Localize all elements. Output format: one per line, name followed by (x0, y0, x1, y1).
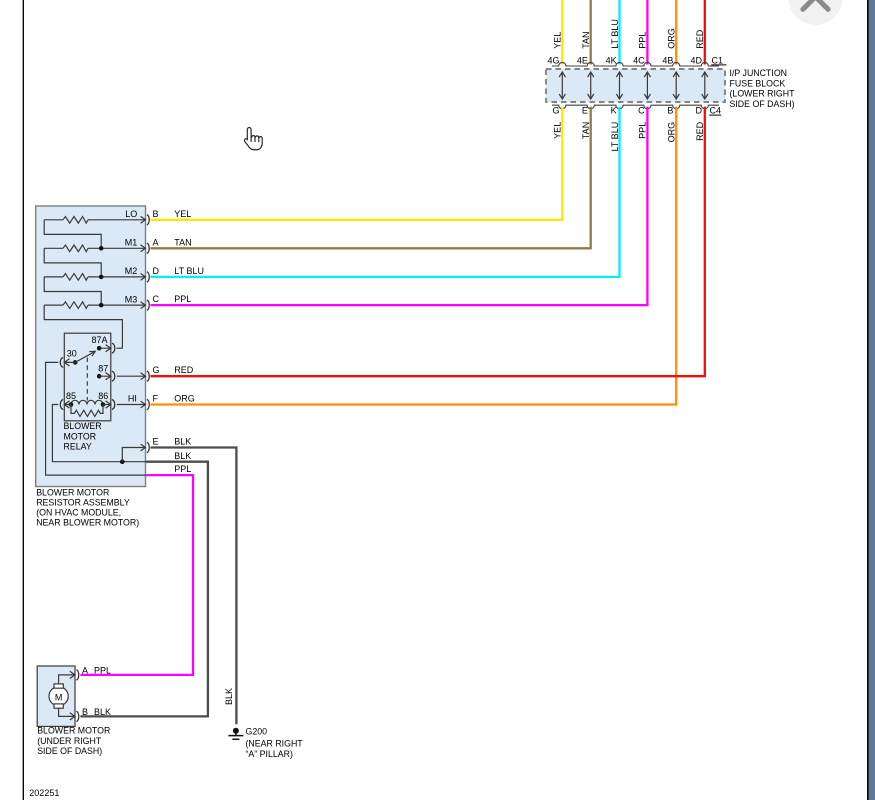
close button circle (789, 0, 843, 25)
wire RED from fuse block D to resistor pin G (151, 107, 705, 377)
wire loop M2 to M3 (44, 277, 101, 305)
svg-text:LT BLU: LT BLU (610, 122, 620, 152)
wire loop M1 to M2 (44, 248, 101, 277)
svg-text:PPL: PPL (638, 122, 648, 139)
I/P junction fuse block body (546, 69, 725, 102)
svg-text:4B: 4B (662, 55, 673, 65)
wire BLK pin E to G200 (151, 448, 237, 725)
svg-text:C1: C1 (712, 55, 724, 65)
svg-text:SIDE OF DASH): SIDE OF DASH) (730, 99, 795, 109)
connector arc pin E (147, 442, 149, 452)
right page background strip (869, 0, 875, 800)
wire relay 30 to PPL output (46, 362, 146, 475)
svg-text:4D: 4D (690, 55, 702, 65)
svg-text:87: 87 (98, 364, 108, 374)
svg-text:A: A (82, 666, 88, 676)
svg-text:YEL: YEL (174, 209, 191, 219)
svg-text:BLK: BLK (174, 451, 191, 461)
connector arc pin G (147, 371, 149, 381)
connector arc pin B (147, 215, 149, 225)
svg-text:“A” PILLAR): “A” PILLAR) (246, 749, 293, 759)
svg-text:TAN: TAN (174, 237, 191, 247)
resistor R2 (63, 245, 88, 252)
svg-text:B: B (667, 106, 673, 116)
svg-text:RESISTOR ASSEMBLY: RESISTOR ASSEMBLY (36, 498, 130, 508)
ground G200 symbol (233, 728, 239, 734)
svg-text:G200: G200 (246, 726, 268, 736)
fuse element arrow (RED path) (702, 72, 708, 99)
svg-text:K: K (611, 106, 617, 116)
resistor R4 row M3 wire (44, 304, 145, 306)
wire TAN from fuse block E to resistor pin A (151, 107, 591, 249)
wire YEL from fuse block G to resistor pin B (151, 107, 563, 220)
svg-text:E: E (582, 106, 588, 116)
svg-text:RED: RED (695, 29, 705, 49)
svg-text:4C: 4C (633, 55, 645, 65)
junction node M2 (99, 275, 104, 280)
fuse element arrow (YEL path) (559, 72, 565, 99)
svg-text:I/P JUNCTION: I/P JUNCTION (730, 68, 788, 78)
svg-text:TAN: TAN (581, 31, 591, 48)
svg-text:LT BLU: LT BLU (610, 19, 620, 49)
svg-text:87A: 87A (92, 335, 108, 345)
wire YEL vertical above fuse block (561, 0, 563, 65)
svg-text:BLK: BLK (224, 688, 234, 705)
relay suppression resistor (71, 405, 103, 417)
svg-text:C: C (638, 106, 645, 116)
svg-text:BLOWER MOTOR: BLOWER MOTOR (37, 726, 110, 736)
svg-text:M2: M2 (125, 266, 138, 276)
svg-text:LO: LO (125, 209, 137, 219)
wire ORG vertical above fuse block (675, 0, 677, 65)
svg-text:YEL: YEL (553, 122, 563, 139)
svg-text:NEAR BLOWER MOTOR): NEAR BLOWER MOTOR) (36, 518, 139, 528)
svg-text:YEL: YEL (553, 32, 563, 49)
svg-text:202251: 202251 (29, 788, 59, 798)
svg-text:(LOWER RIGHT: (LOWER RIGHT (730, 89, 796, 99)
svg-text:4K: 4K (606, 55, 617, 65)
svg-text:B: B (153, 209, 159, 219)
connector arc pin F (147, 399, 149, 409)
relay pin 87 node and arrow (97, 374, 102, 379)
wire junction to pin E (122, 444, 145, 462)
junction node M1 (99, 246, 104, 251)
svg-text:PPL: PPL (174, 294, 191, 304)
resistor R1 row LO wire (44, 219, 145, 221)
svg-text:G: G (552, 106, 559, 116)
svg-text:E: E (153, 437, 159, 447)
wire loop LO to M1 (44, 220, 101, 249)
svg-text:ORG: ORG (667, 28, 677, 49)
svg-text:85: 85 (66, 391, 76, 401)
connector arc motor pin B (76, 711, 78, 721)
pin arrow LO/B at box edge (141, 216, 146, 223)
svg-text:HI: HI (128, 394, 137, 404)
svg-text:30: 30 (67, 349, 77, 359)
wire 87 to pin G (117, 373, 146, 380)
wire ORG from fuse block B to resistor pin F (151, 107, 677, 405)
fuse element arrow (LT BLU path) (616, 72, 622, 99)
wire BLK bus to motor pin B (80, 462, 207, 717)
svg-text:A: A (153, 237, 159, 247)
connector arc pin A (147, 243, 149, 253)
relay pin 85 node and arrow (69, 402, 74, 407)
svg-text:SIDE OF DASH): SIDE OF DASH) (37, 746, 102, 756)
svg-text:BLOWER: BLOWER (64, 421, 102, 431)
relay switch blade (75, 351, 95, 362)
svg-text:LT BLU: LT BLU (174, 266, 204, 276)
svg-text:4E: 4E (577, 55, 588, 65)
wire 86 HI to pin F (117, 401, 146, 408)
blower motor box (37, 666, 75, 726)
wire PPL from fuse block C to resistor pin C (151, 107, 648, 306)
pin arrow M2/D at box edge (141, 274, 146, 281)
svg-text:M3: M3 (125, 294, 138, 304)
wire relay 85 to ground bus (52, 405, 145, 462)
resistor R1 (63, 217, 88, 224)
pin arrow M3/C at box edge (141, 302, 146, 309)
wire LT BLU vertical above fuse block (618, 0, 620, 65)
fuse element arrow (TAN path) (588, 72, 594, 99)
right page border (867, 0, 869, 800)
relay armature dashed link (86, 358, 88, 401)
motor wire to pin B (59, 708, 75, 720)
blower motor resistor assembly box (36, 206, 146, 487)
wire TAN vertical above fuse block (590, 0, 592, 65)
svg-text:4G: 4G (547, 55, 559, 65)
blower motor relay box (64, 333, 111, 421)
resistor R2 row M1 wire (44, 247, 145, 249)
relay pin 86 node and arrow (101, 402, 106, 407)
svg-text:PPL: PPL (174, 464, 191, 474)
svg-text:TAN: TAN (581, 122, 591, 139)
fuse block top scalloped connector edge (552, 62, 719, 66)
motor M1 circle (49, 687, 68, 706)
connector arc relay 86 (112, 400, 115, 410)
svg-text:PPL: PPL (638, 32, 648, 49)
junction node M3 (99, 303, 104, 308)
wire LT BLU from fuse block K to resistor pin D (151, 107, 620, 277)
connector arc relay 87 (112, 371, 115, 381)
wire PPL vertical above fuse block (646, 0, 648, 65)
wire PPL to motor pin A (80, 475, 193, 675)
connector arc pin D (147, 272, 149, 282)
relay pin 30 node and arrow (73, 360, 78, 365)
svg-text:D: D (696, 106, 703, 116)
svg-text:G: G (153, 365, 160, 375)
svg-text:(UNDER RIGHT: (UNDER RIGHT (37, 736, 102, 746)
motor wire to pin A (59, 671, 75, 684)
connector arc relay 87A (112, 343, 115, 353)
close button X (803, 0, 828, 9)
svg-text:FUSE BLOCK: FUSE BLOCK (730, 78, 786, 88)
svg-text:M1: M1 (125, 238, 138, 248)
resistor R4 (63, 302, 88, 309)
resistor R3 row M2 wire (44, 276, 145, 278)
junction node ground bus (120, 459, 125, 464)
svg-text:C: C (153, 294, 160, 304)
svg-text:RED: RED (695, 121, 705, 141)
svg-text:86: 86 (98, 391, 108, 401)
resistor R3 (63, 274, 88, 281)
fuse block bottom scalloped connector edge (552, 105, 719, 109)
pin arrow M1/A at box edge (141, 245, 146, 252)
fuse element arrow (PPL path) (644, 72, 650, 99)
svg-text:BLK: BLK (174, 437, 191, 447)
svg-text:ORG: ORG (667, 122, 677, 143)
wire RED vertical above fuse block (704, 0, 706, 65)
svg-text:BLK: BLK (94, 707, 111, 717)
svg-text:PPL: PPL (94, 666, 111, 676)
svg-text:D: D (153, 266, 160, 276)
fuse element arrow (ORG path) (673, 72, 679, 99)
motor bottom brush (54, 704, 63, 708)
mouse cursor (pointing hand) (244, 128, 262, 150)
connector arc relay 85 (60, 400, 63, 410)
svg-text:(NEAR RIGHT: (NEAR RIGHT (246, 739, 304, 749)
connector arc pin C (147, 300, 149, 310)
left page border (23, 0, 24, 800)
svg-text:BLOWER MOTOR: BLOWER MOTOR (36, 488, 109, 498)
relay coil (71, 400, 103, 404)
wire loop M3 to relay pin 87A (44, 305, 122, 348)
svg-text:ORG: ORG (174, 394, 195, 404)
svg-text:C4: C4 (710, 106, 722, 116)
svg-text:B: B (82, 707, 88, 717)
svg-text:F: F (153, 394, 159, 404)
svg-text:RELAY: RELAY (64, 442, 92, 452)
connector arc relay 30 (60, 358, 63, 368)
svg-text:M: M (55, 693, 63, 703)
relay pin 87A node and arrow (97, 346, 102, 351)
svg-text:MOTOR: MOTOR (64, 431, 97, 441)
connector arc motor pin A (76, 670, 78, 680)
motor top brush (54, 684, 63, 688)
svg-text:(ON HVAC MODULE,: (ON HVAC MODULE, (36, 508, 121, 518)
svg-text:RED: RED (174, 365, 194, 375)
